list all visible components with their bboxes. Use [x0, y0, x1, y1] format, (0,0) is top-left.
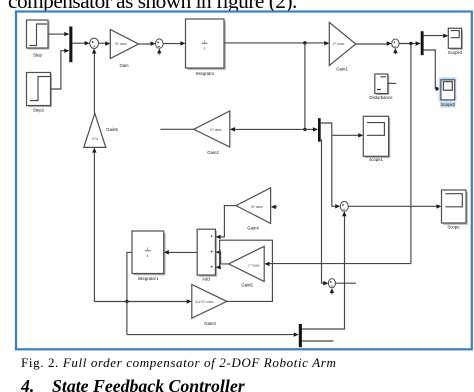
wire plant output vertical — [410, 44, 412, 264]
svg-text:C* uvec: C* uvec — [333, 42, 345, 46]
demux Demux3 — [299, 324, 302, 347]
wire junction to Gain2 input — [230, 127, 305, 131]
disturbance source Disturbance — [370, 74, 394, 100]
wire Demux1 to Scope3 — [424, 34, 449, 38]
scope Scope — [442, 190, 468, 230]
svg-text:Gain6: Gain6 — [106, 127, 118, 132]
gain Gain4 — [236, 188, 271, 231]
wire Demux1 to Scope2 — [424, 50, 441, 91]
step source Step — [27, 20, 50, 58]
integrator Integrator1 — [132, 231, 166, 281]
wire xhat to Demux3 — [127, 332, 299, 336]
svg-text:scope1: scope1 — [369, 157, 383, 162]
add block Add — [197, 229, 217, 281]
sum Sum2 — [392, 39, 399, 48]
wire Demux3 up to Sum3 — [302, 211, 347, 329]
svg-text:K*u: K*u — [92, 137, 97, 141]
wire xhat up to Gain6 — [92, 148, 96, 302]
sum Sum — [90, 38, 99, 48]
wire Gain4 input stub — [271, 205, 277, 209]
sum Sum1 — [156, 39, 164, 48]
svg-text:Gain3: Gain3 — [204, 321, 216, 326]
svg-text:Gain4: Gain4 — [247, 226, 259, 231]
wire branch down to Gain2 row — [304, 43, 306, 129]
wire Demux3 out B — [302, 340, 334, 342]
node junction at Gain2 row — [303, 128, 306, 131]
wire Sum4 output — [335, 282, 356, 284]
sum Sum1 bottom stub — [157, 49, 161, 55]
mux Mux — [69, 27, 72, 63]
sum Sum2 bottom stub — [393, 48, 397, 54]
wire Demux2 out A to scope1 and Sum3 — [321, 123, 341, 209]
svg-text:Integrator: Integrator — [196, 71, 215, 76]
gain Gain6 (rotated up) — [84, 113, 119, 147]
gain Gain — [110, 30, 138, 69]
svg-text:Scope2: Scope2 — [441, 102, 456, 107]
wire Integrator1 output down — [127, 252, 132, 301]
svg-text:Gain: Gain — [119, 63, 129, 68]
sum Sum3 — [340, 201, 348, 211]
svg-text:Integrator1: Integrator1 — [138, 276, 159, 281]
wire xhat junction down — [126, 302, 128, 335]
svg-text:1: 1 — [147, 247, 149, 251]
svg-text:B* uvec: B* uvec — [115, 42, 127, 46]
wire Gain3 to Add (loop) — [216, 240, 273, 301]
svg-text:Scope3: Scope3 — [448, 50, 463, 55]
wire junction to Demux1 — [305, 127, 318, 131]
scope Scope2 (selected) — [439, 77, 457, 107]
svg-text:Gain5: Gain5 — [241, 283, 253, 288]
wire Add to Integrator1 — [164, 250, 197, 254]
demux Demux2 — [318, 118, 321, 142]
wire Demux2 out B down to Sum4 — [321, 140, 329, 285]
wire Mux to Sum — [72, 41, 89, 45]
demux Demux1 — [421, 31, 424, 55]
svg-text:L* uvec: L* uvec — [249, 264, 260, 268]
wire xhat junction left to Gain6 leg — [94, 301, 127, 303]
wire to Gain5 input — [264, 262, 411, 266]
svg-text:Step1: Step1 — [33, 108, 45, 113]
wire Sum3 to Scope — [348, 204, 441, 208]
wire Step1 to Mux — [51, 49, 70, 90]
svg-text:Add: Add — [202, 277, 210, 282]
wire xhat junction to Gain3 — [127, 299, 192, 303]
wire Integrator to Gain1 — [224, 41, 329, 45]
wire Gain2 output — [160, 128, 193, 130]
wire Gain1 to Sum2 — [356, 41, 392, 45]
wire Sum1 to Integrator — [163, 41, 185, 45]
svg-text:Scope: Scope — [447, 225, 460, 230]
sum Sum4 bottom stub — [330, 288, 334, 294]
figure caption — [21, 355, 336, 371]
node branch on Integrator output — [303, 41, 306, 44]
gain Gain1 — [329, 22, 356, 71]
wire branch to scope1 — [332, 133, 364, 137]
wire Disturbance stub — [388, 82, 396, 84]
svg-text:Gain2: Gain2 — [207, 150, 219, 155]
gain Gain2 — [194, 111, 230, 155]
sum Sum4 — [328, 279, 335, 288]
wire Sum2 to Demux1 — [399, 41, 421, 45]
gain Gain5 — [229, 246, 265, 287]
integrator Integrator — [186, 19, 226, 76]
svg-text:Step: Step — [33, 53, 42, 58]
scope Scope3 — [448, 28, 463, 55]
svg-text:Disturbance: Disturbance — [370, 95, 394, 100]
section heading (cropped) — [21, 376, 34, 392]
wire Gain6 to Sum (vertical) — [92, 49, 96, 114]
svg-text:A-L*C* uvec: A-L*C* uvec — [196, 300, 214, 304]
scope scope1 — [363, 116, 390, 162]
wire Sum to Gain — [99, 41, 111, 45]
svg-text:B* uvec: B* uvec — [251, 205, 263, 209]
wire Gain to Sum1 — [139, 41, 156, 45]
wire Gain5 to Add — [216, 250, 229, 264]
gain Gain3 — [192, 285, 227, 327]
node xhat junction — [125, 300, 128, 303]
node branch to plant output line — [409, 42, 412, 45]
wire Gain4 to Add — [216, 206, 236, 240]
paragraph text (cropped) — [8, 0, 297, 14]
wire Step to Mux — [48, 32, 69, 36]
step source Step1 — [27, 73, 53, 113]
svg-text:K* uvec: K* uvec — [210, 128, 222, 132]
svg-text:Gain1: Gain1 — [336, 67, 348, 72]
